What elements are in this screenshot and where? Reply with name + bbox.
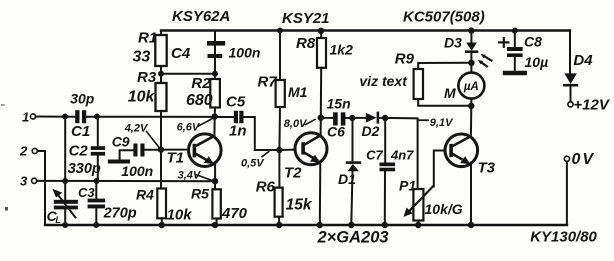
resistor R2 680 xyxy=(210,79,220,108)
svg-text:1n: 1n xyxy=(229,122,247,139)
transistor T2 xyxy=(295,133,327,165)
capacitor C7 4n7 xyxy=(384,118,386,163)
node dot D1/D2 xyxy=(349,115,355,121)
node dot R1/R3/C4 wire xyxy=(158,71,164,77)
capacitor CL variable xyxy=(64,117,66,200)
svg-text:C7: C7 xyxy=(366,148,383,163)
svg-text:+12V: +12V xyxy=(573,97,610,114)
pointer 6,6V xyxy=(199,119,213,126)
wire T3 collector up xyxy=(470,106,472,137)
svg-text:KSY62A: KSY62A xyxy=(172,8,230,25)
wire T1 emitter down xyxy=(214,164,216,182)
svg-text:10k/G: 10k/G xyxy=(425,201,463,217)
C8 plus sign xyxy=(499,41,508,43)
wire C5 to T2 base xyxy=(244,117,280,150)
svg-text:330p: 330p xyxy=(68,161,101,177)
svg-text:C1: C1 xyxy=(71,123,90,140)
svg-text:viz text: viz text xyxy=(359,73,408,89)
node dot T1 base xyxy=(158,146,164,152)
terminal +12V xyxy=(568,102,573,107)
svg-text:R6: R6 xyxy=(256,178,276,195)
node dot CL on wire3 xyxy=(62,178,68,184)
capacitor C6 15n xyxy=(321,117,333,119)
C9 chassis bar xyxy=(110,160,128,164)
node dot T2 base / R7 / R6 xyxy=(276,147,282,153)
terminal 2 xyxy=(32,148,37,153)
svg-text:8,0V: 8,0V xyxy=(284,118,308,130)
pointer 8,0V xyxy=(306,119,316,124)
node dot C1 left xyxy=(62,114,68,120)
speck marks (scan artifacts) xyxy=(5,207,8,211)
wire bottom 0V rail xyxy=(45,224,567,226)
wire R1R3 node to C4R2 node xyxy=(161,73,215,75)
D3 light arrows xyxy=(484,56,491,60)
svg-text:C3: C3 xyxy=(78,185,95,200)
meter M microA xyxy=(470,63,472,73)
wire terminal1 to T1 collector junction xyxy=(36,116,76,118)
svg-text:R1: R1 xyxy=(138,30,157,47)
diode D4 xyxy=(569,31,571,74)
svg-text:R3: R3 xyxy=(137,69,157,86)
resistor R9 xyxy=(418,63,471,69)
svg-text:µA: µA xyxy=(463,81,479,93)
terminal 0V xyxy=(564,156,569,161)
diode D3 xyxy=(470,31,472,43)
resistor R7 M1 xyxy=(277,28,283,34)
wire 0V to bottom rail xyxy=(566,161,568,225)
pointer 4,2V xyxy=(147,132,160,148)
svg-text:M1: M1 xyxy=(288,84,308,100)
svg-text:100n: 100n xyxy=(121,163,153,179)
capacitor C5 1n xyxy=(215,116,234,118)
svg-text:4n7: 4n7 xyxy=(390,148,414,163)
resistor R4 10k xyxy=(160,150,162,189)
capacitor C8 10u xyxy=(514,31,516,47)
svg-text:KY130/80: KY130/80 xyxy=(530,228,597,245)
wire terminal3 to T1 emitter node xyxy=(37,180,215,182)
resistor R3 10k xyxy=(156,83,167,111)
svg-text:T1: T1 xyxy=(167,149,185,166)
capacitor C4 100n xyxy=(214,31,216,55)
wire T2 emitter down xyxy=(319,162,322,225)
svg-text:6,6V: 6,6V xyxy=(177,121,201,133)
transistor T3 xyxy=(445,134,478,167)
resistor R8 1k2 xyxy=(320,31,322,38)
node dot T1 emitter / wire3 / R5 xyxy=(212,178,218,184)
wire P1 wiper to T3 base xyxy=(433,151,444,187)
svg-text:R4: R4 xyxy=(136,187,154,203)
svg-text:470: 470 xyxy=(221,205,248,222)
svg-text:P1: P1 xyxy=(399,177,416,193)
svg-text:R8: R8 xyxy=(296,35,316,52)
node dot C7 top xyxy=(382,115,388,121)
wire terminal2 down to 0V rail xyxy=(37,151,45,225)
wire T1 collector up xyxy=(213,117,215,137)
svg-text:15n: 15n xyxy=(327,96,351,112)
capacitor C9 100n xyxy=(133,144,144,157)
svg-text:270p: 270p xyxy=(103,206,137,222)
svg-text:D3: D3 xyxy=(444,35,462,51)
svg-text:C9: C9 xyxy=(112,133,130,149)
svg-text:3: 3 xyxy=(20,173,28,188)
node top rail junction dots xyxy=(318,27,518,34)
wire T3 emitter down xyxy=(470,163,472,226)
diode D1 xyxy=(352,118,354,162)
svg-text:C2: C2 xyxy=(69,142,89,159)
svg-text:680: 680 xyxy=(186,92,213,109)
pointer 0,5V xyxy=(262,152,269,157)
svg-text:3,4V: 3,4V xyxy=(178,170,202,182)
resistor R5 470 xyxy=(214,181,216,189)
svg-text:10k: 10k xyxy=(167,206,193,223)
C8 chassis bar xyxy=(505,71,525,75)
terminal 3 xyxy=(32,178,37,183)
node bottom rail junction dots xyxy=(62,222,474,228)
svg-text:2×GA203: 2×GA203 xyxy=(317,229,389,247)
svg-text:0,5V: 0,5V xyxy=(241,157,265,169)
svg-text:T2: T2 xyxy=(284,165,302,182)
svg-text:1k2: 1k2 xyxy=(330,41,354,57)
P1 wiper arrow xyxy=(408,187,433,213)
resistor R6 15k xyxy=(278,150,280,188)
svg-text:D2: D2 xyxy=(362,123,380,139)
svg-text:KC507(508): KC507(508) xyxy=(403,9,485,26)
svg-text:2: 2 xyxy=(19,143,28,158)
svg-text:R2: R2 xyxy=(191,75,211,92)
node dot T1 collector / C5 xyxy=(212,113,218,119)
node dot C4/R2 xyxy=(212,71,218,77)
node dot C2/C3/wire3 xyxy=(94,178,100,184)
svg-text:10k: 10k xyxy=(128,89,156,106)
CL arrow xyxy=(58,194,76,217)
node dot R8/C6/T2 collector xyxy=(318,115,324,121)
capacitor C2 330p xyxy=(97,117,99,147)
svg-text:9,1V: 9,1V xyxy=(430,117,454,129)
svg-text:100n: 100n xyxy=(229,45,261,61)
9,1V pointer dash xyxy=(420,119,429,121)
diode D2 xyxy=(352,117,366,119)
svg-text:T3: T3 xyxy=(478,160,496,177)
pointer 3,4V xyxy=(196,175,213,181)
wire top supply rail xyxy=(161,29,570,31)
resistor R1 33 xyxy=(160,31,162,36)
svg-text:R9: R9 xyxy=(395,51,415,68)
terminal 1 xyxy=(30,114,35,119)
capacitor C3 270p xyxy=(95,181,97,199)
node dot D3 cathode / R9 / meter xyxy=(468,60,474,66)
svg-text:0V: 0V xyxy=(572,151,595,168)
node dot C2 top xyxy=(94,114,100,120)
svg-text:C4: C4 xyxy=(171,45,191,62)
svg-text:15k: 15k xyxy=(286,197,313,214)
svg-text:C5: C5 xyxy=(226,93,246,110)
svg-text:33: 33 xyxy=(133,49,151,66)
wire T2 collector up xyxy=(320,118,322,135)
transistor T1 xyxy=(189,134,222,167)
svg-text:M: M xyxy=(444,85,456,101)
svg-text:D1: D1 xyxy=(338,171,356,187)
svg-text:C6: C6 xyxy=(327,124,345,140)
svg-text:10µ: 10µ xyxy=(525,54,549,70)
node dot meter bottom / T3 collector xyxy=(468,103,474,109)
capacitor C1 30p xyxy=(75,110,86,123)
svg-text:R5: R5 xyxy=(191,186,209,202)
svg-text:30p: 30p xyxy=(70,90,95,106)
svg-text:KSY21: KSY21 xyxy=(282,10,330,27)
potentiometer P1 10k/G xyxy=(413,189,423,221)
wire 9,1V node to P1 top xyxy=(385,118,417,189)
svg-text:1: 1 xyxy=(22,109,29,124)
svg-text:L: L xyxy=(55,215,61,225)
svg-text:R7: R7 xyxy=(258,74,278,91)
svg-text:D4: D4 xyxy=(573,52,593,69)
svg-text:C8: C8 xyxy=(524,34,542,50)
